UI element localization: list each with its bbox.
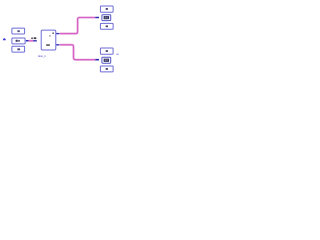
block L1 [12,28,25,34]
block L2 [12,38,25,44]
wire W3 (U1 out2 to B2) [56,45,99,61]
svg-text:Ecu_1: Ecu_1 [38,54,46,58]
background [0,0,120,81]
block B1 [100,48,113,54]
label Ecu_1 [38,54,46,58]
block L3 [12,46,25,52]
wire W1 (L2 to U1 input) [26,40,37,42]
block T2 [102,15,111,21]
block T1 [100,6,113,12]
block B3 [100,66,113,72]
label right of B1 [116,53,119,56]
input marker IN [3,38,6,40]
block B2 [102,57,111,63]
subsystem U1 [41,30,56,50]
label above input wire [31,37,36,39]
wire W2 (U1 out1 to T2) [56,17,99,34]
block T3 [100,23,113,29]
